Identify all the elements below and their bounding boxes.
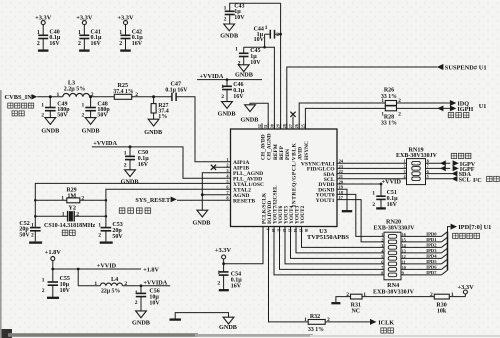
svg-text:16: 16 bbox=[304, 228, 308, 232]
ground bar (DGND) bbox=[342, 210, 352, 212]
svg-text:GNDB: GNDB bbox=[132, 319, 150, 326]
net label +VVIDA (top) bbox=[200, 73, 224, 80]
svg-text:YOUT1: YOUT1 bbox=[316, 198, 335, 204]
svg-text:1: 1 bbox=[82, 103, 85, 109]
svg-text:GNDB: GNDB bbox=[219, 324, 237, 331]
ground GNDB (tie point) bbox=[219, 317, 237, 331]
wire bbox=[42, 25, 44, 36]
svg-text:2: 2 bbox=[135, 300, 138, 306]
wire YOUT4 to RN20 bbox=[291, 227, 385, 259]
svg-text:5: 5 bbox=[427, 174, 429, 179]
capacitor C54 0.1u 16V bbox=[217, 264, 242, 290]
svg-text:33 1%: 33 1% bbox=[381, 120, 397, 126]
svg-text:2: 2 bbox=[41, 113, 44, 119]
resistor R28 33 1% bbox=[381, 106, 450, 127]
svg-text:29: 29 bbox=[277, 124, 281, 128]
svg-text:CH_AGND: CH_AGND bbox=[267, 133, 273, 160]
svg-text:1: 1 bbox=[62, 211, 65, 217]
wire bbox=[125, 25, 127, 36]
capacitor C41 0.1u 16V bbox=[78, 29, 102, 50]
capacitor C42 0.1u 16V bbox=[119, 29, 143, 50]
ground GNDB (CH_AGND) bbox=[240, 105, 258, 124]
svg-text:1: 1 bbox=[304, 317, 307, 323]
svg-text:16V: 16V bbox=[387, 202, 398, 208]
svg-text:SYS_RESET: SYS_RESET bbox=[135, 197, 171, 204]
net label +1.8V (right end) bbox=[143, 267, 159, 274]
svg-text:32: 32 bbox=[258, 124, 262, 128]
port SDA (arrow left) bbox=[451, 171, 471, 178]
power +3.3V terminal (C40 rail) bbox=[35, 14, 52, 24]
wire ground tie bbox=[175, 313, 228, 320]
capacitor C51 0.1u 16V bbox=[372, 184, 398, 208]
svg-text:IPD5: IPD5 bbox=[426, 259, 437, 264]
svg-text:22µ 5%: 22µ 5% bbox=[101, 289, 120, 295]
ground bar (C52) bbox=[29, 241, 42, 243]
ground GNDB (R27) bbox=[144, 119, 162, 136]
wire +3.3V to IO_DVDD bbox=[222, 227, 263, 266]
ground bar (C54) bbox=[219, 289, 229, 291]
svg-text:2: 2 bbox=[98, 232, 101, 238]
capacitor C44 1u 10V (series, horizontal) bbox=[254, 25, 281, 43]
label CJK: composite video signal bbox=[8, 103, 34, 116]
capacitor C43 1u 10V bbox=[224, 3, 246, 24]
pin 17 YOUT1 bbox=[316, 195, 344, 204]
pin 31 CH_AGND bbox=[264, 123, 272, 160]
svg-text:GNDB: GNDB bbox=[82, 128, 100, 135]
label CJK: horizontal sync bbox=[448, 112, 469, 117]
pin 22 SDA bbox=[323, 169, 343, 178]
svg-text:1: 1 bbox=[41, 103, 44, 109]
svg-text:SCL: SCL bbox=[459, 176, 471, 183]
capacitor C52 20p 50V bbox=[19, 221, 40, 242]
no-connect X on INTREQ/GPCL/VBLK bbox=[290, 112, 295, 129]
svg-text:+VVIDA: +VVIDA bbox=[143, 279, 167, 286]
net label +VVID bbox=[97, 263, 117, 270]
label U3 bbox=[319, 228, 327, 235]
pin 27 INTREQ/GPCL/VBLK bbox=[289, 123, 297, 207]
pin 1 AIP1A bbox=[226, 157, 249, 166]
pin 30 REFM bbox=[270, 123, 278, 160]
wire RN19 to IGPV bbox=[426, 162, 451, 164]
power +3.3V terminal (R30) bbox=[457, 284, 474, 297]
svg-text:INTREQ/GPCL/VBLK: INTREQ/GPCL/VBLK bbox=[291, 142, 297, 207]
svg-text:1: 1 bbox=[381, 232, 383, 237]
wire YOUT7/I2CSEL to RN20 bbox=[274, 227, 384, 275]
port SYS_RESET bbox=[135, 197, 230, 204]
svg-text:10V: 10V bbox=[234, 15, 245, 21]
port IGPV (bidir) bbox=[440, 160, 476, 168]
svg-text:2: 2 bbox=[224, 17, 227, 23]
capacitor C53 20p 50V bbox=[98, 222, 123, 241]
svg-text:26: 26 bbox=[295, 124, 299, 128]
pin 10 IO.DVDD bbox=[267, 201, 275, 232]
wire RN19 to IGPF bbox=[426, 167, 451, 169]
svg-text:10V: 10V bbox=[60, 288, 71, 294]
svg-text:CH_AVDD: CH_AVDD bbox=[260, 134, 266, 160]
ground bar bbox=[120, 49, 131, 51]
svg-text:2: 2 bbox=[430, 292, 433, 298]
wire +1.8V / +VVID rail bbox=[51, 261, 141, 271]
net label +VVIDA (bottom) bbox=[143, 279, 167, 286]
resistor network RN19 EXB-38V330JV bbox=[396, 147, 438, 185]
pin 25 HSYNC bbox=[301, 123, 309, 160]
svg-text:2: 2 bbox=[42, 288, 45, 294]
svg-text:EXB-38V330JV: EXB-38V330JV bbox=[373, 226, 415, 232]
ground GNDB (C46) bbox=[218, 102, 236, 118]
svg-text:IPD0: IPD0 bbox=[426, 231, 437, 236]
wire RN19 to SCL port bbox=[426, 178, 453, 180]
port CVBS_IN bbox=[5, 94, 38, 101]
ground bar (tie point) bbox=[169, 318, 181, 320]
wire VSYNC/PALI to RN19 bbox=[337, 162, 407, 164]
ground GNDB (C45) bbox=[235, 65, 253, 79]
svg-text:SUSPEND# U1: SUSPEND# U1 bbox=[445, 65, 487, 72]
no-connect X on AIP1B bbox=[211, 165, 231, 170]
ground GNDB (C48) bbox=[82, 118, 100, 135]
bus IPD[7:0] bbox=[401, 227, 451, 275]
net label +VVIDA (left) bbox=[93, 140, 117, 147]
pin 19 DGND bbox=[318, 185, 344, 194]
wire SCL to RN19 bbox=[337, 178, 407, 180]
power +3.3V terminal (C41 rail) bbox=[76, 14, 93, 24]
svg-text:GNDB: GNDB bbox=[144, 129, 162, 136]
label crystal value bbox=[44, 223, 95, 229]
ground GNDB (C56) bbox=[132, 311, 150, 327]
svg-text:Y2: Y2 bbox=[68, 204, 76, 211]
svg-text:AVID: AVID bbox=[298, 147, 304, 160]
svg-text:6: 6 bbox=[381, 259, 383, 264]
svg-text:10V: 10V bbox=[250, 60, 261, 66]
svg-text:2: 2 bbox=[381, 237, 383, 242]
svg-text:+1.8V: +1.8V bbox=[45, 249, 62, 256]
pin 7 AGND bbox=[226, 190, 249, 199]
ground bar (C55) bbox=[47, 297, 59, 299]
svg-text:REFP: REFP bbox=[279, 145, 285, 160]
pin 20 DVDD bbox=[318, 179, 343, 188]
power +1.8V terminal bbox=[45, 249, 62, 260]
svg-text:2: 2 bbox=[398, 111, 401, 117]
power +3.3V terminal (C42 rail) bbox=[117, 14, 134, 24]
port IPD[7:0] U1 (arrow right) bbox=[451, 224, 492, 232]
svg-text:2: 2 bbox=[226, 162, 228, 167]
wire L3 to R25 bbox=[89, 95, 114, 98]
svg-text:1: 1 bbox=[381, 98, 384, 104]
svg-text:GNDB: GNDB bbox=[193, 219, 211, 226]
svg-text:IPD6: IPD6 bbox=[426, 264, 437, 269]
ground GNDB (AGND) bbox=[193, 210, 211, 226]
wire PCLK/SCLK to R32 bbox=[269, 227, 309, 322]
pin 23 FID/GLCO bbox=[307, 164, 344, 173]
svg-text:16V: 16V bbox=[138, 162, 149, 168]
pin 6 XTAL2 bbox=[226, 184, 251, 193]
scan edge artifacts (decorative) bbox=[0, 90, 500, 338]
svg-text:CVBS_IN: CVBS_IN bbox=[5, 94, 33, 101]
wire +VVIDA to CH_AVDD bbox=[197, 78, 262, 81]
wire YOUT5 to RN20 bbox=[285, 227, 384, 264]
wire REFP vertical bbox=[280, 3, 282, 129]
pin 14 YOUT4 bbox=[289, 205, 297, 232]
svg-text:1: 1 bbox=[235, 46, 238, 52]
svg-text:4: 4 bbox=[381, 248, 383, 253]
ground bar (C51) bbox=[376, 207, 386, 209]
svg-text:GNDB: GNDB bbox=[218, 110, 236, 117]
wire CVBS to L3 bbox=[37, 95, 63, 98]
svg-text:27: 27 bbox=[289, 124, 293, 128]
label CJK: system reset bbox=[119, 208, 150, 213]
svg-text:HSYNC: HSYNC bbox=[304, 141, 310, 160]
wire XTAL1 bbox=[35, 183, 230, 227]
svg-text:1: 1 bbox=[42, 277, 45, 283]
svg-text:2: 2 bbox=[37, 41, 40, 47]
pin 18 YOUT0 bbox=[316, 190, 344, 199]
svg-text:NC: NC bbox=[351, 308, 360, 314]
svg-text:CS10-14.31818MHz: CS10-14.31818MHz bbox=[44, 223, 95, 229]
svg-text:GNDB: GNDB bbox=[240, 117, 258, 124]
svg-text:2: 2 bbox=[217, 280, 220, 286]
svg-text:GNDB: GNDB bbox=[41, 128, 59, 135]
ground bar bbox=[38, 49, 49, 51]
resistor R27 37.4 1% (to ground) bbox=[151, 97, 169, 120]
svg-text:1: 1 bbox=[57, 92, 60, 98]
svg-text:3: 3 bbox=[381, 243, 383, 248]
pin 12 YOUT6 bbox=[278, 205, 286, 232]
svg-text:REFM: REFM bbox=[273, 144, 279, 160]
svg-text:2: 2 bbox=[31, 232, 34, 238]
svg-text:1: 1 bbox=[124, 150, 127, 156]
svg-text:50V: 50V bbox=[112, 234, 123, 240]
pin 9 PCLK/SCLK bbox=[261, 192, 269, 232]
svg-text:+VVID: +VVID bbox=[97, 263, 117, 270]
svg-text:IPD4: IPD4 bbox=[426, 253, 437, 258]
svg-text:GNDB: GNDB bbox=[121, 178, 139, 185]
svg-text:R25: R25 bbox=[117, 82, 128, 89]
pin 26 AVID bbox=[295, 123, 303, 160]
wire AVID to R26 bbox=[299, 103, 385, 129]
svg-text:IPD7: IPD7 bbox=[426, 270, 437, 275]
svg-text:2: 2 bbox=[78, 41, 81, 47]
pin 32 CH_AVDD bbox=[258, 123, 266, 160]
pin 13 YOUT5 bbox=[283, 205, 291, 232]
svg-text:30: 30 bbox=[270, 124, 274, 128]
capacitor C50 0.1u 16V bbox=[124, 147, 149, 170]
svg-text:+VVID: +VVID bbox=[382, 179, 402, 186]
capacitor C55 10u 10V bbox=[42, 269, 71, 297]
wire C47 to AIP1A bbox=[176, 97, 230, 162]
svg-text:2: 2 bbox=[221, 94, 224, 100]
ground GNDB (C43) bbox=[220, 24, 238, 40]
capacitor C46 0.1u 16V bbox=[221, 80, 244, 102]
wire SDA to RN19 bbox=[337, 173, 407, 175]
svg-text:RN20: RN20 bbox=[386, 219, 401, 226]
wire C43 top rail to REFP bbox=[230, 3, 281, 11]
IC U3 TVP5150APBS body bbox=[231, 129, 338, 227]
svg-text:ICLK: ICLK bbox=[378, 319, 394, 326]
svg-text:1: 1 bbox=[226, 157, 228, 162]
wire HSYNC to R28 bbox=[305, 108, 385, 129]
resistor R32 33 1% bbox=[304, 314, 370, 333]
port SCL (arrow left) bbox=[451, 176, 470, 183]
svg-text:2: 2 bbox=[346, 292, 349, 298]
svg-text:L3: L3 bbox=[68, 80, 75, 87]
svg-text:28: 28 bbox=[283, 124, 287, 128]
capacitor C49 180p 50V bbox=[41, 97, 70, 119]
wire YOUT1 to RN20 pin2 bbox=[337, 200, 384, 242]
wire PLL_AGND / AGND to ground bbox=[201, 173, 231, 210]
svg-text:1: 1 bbox=[94, 281, 97, 287]
svg-text:U1: U1 bbox=[479, 103, 487, 110]
label CJK: vertical sync bbox=[451, 153, 471, 158]
svg-text:10V: 10V bbox=[149, 301, 160, 307]
wire CH_AGND to ground bbox=[250, 103, 268, 129]
pin 24 VSYNC/PALI bbox=[301, 159, 344, 168]
wire +VVIDA to PLL_AVDD bbox=[92, 145, 231, 178]
ground bar (R31) bbox=[331, 302, 340, 304]
wire DGND to ground bbox=[337, 189, 347, 210]
wire XTAL2 bbox=[106, 189, 231, 227]
svg-text:2: 2 bbox=[372, 202, 375, 208]
svg-text:RESETB: RESETB bbox=[233, 199, 255, 205]
capacitor C56 10u 10V bbox=[135, 286, 161, 311]
net label +VVID (right) bbox=[382, 179, 402, 186]
port ICLK (arrow right) bbox=[370, 319, 394, 327]
resistor R25 37.4 1% bbox=[113, 82, 155, 100]
pin 11 YOUT7/I2CSEL bbox=[272, 185, 280, 232]
svg-text:5: 5 bbox=[381, 254, 383, 259]
wire R31 to R30 bbox=[362, 296, 434, 298]
svg-text:50V: 50V bbox=[97, 113, 108, 119]
wire FID/GLCO to RN19 bbox=[337, 167, 407, 169]
crystal Y2 CS10-14.31818MHz bbox=[34, 204, 107, 221]
ground bar (C53) bbox=[100, 241, 113, 243]
wire bbox=[83, 25, 85, 36]
pin 5 XTAL1/OSC bbox=[226, 179, 264, 188]
svg-text:+3.3V: +3.3V bbox=[215, 247, 232, 254]
svg-text:1: 1 bbox=[265, 25, 268, 31]
resistor R29 1M bbox=[34, 188, 107, 203]
label RN4 bbox=[373, 282, 415, 295]
port SUSPEND# U1 (arrow left) bbox=[437, 64, 487, 72]
label CJK: clock bbox=[381, 328, 394, 333]
port IGPF (bidir) bbox=[440, 166, 475, 174]
svg-text:GNDB: GNDB bbox=[220, 33, 238, 40]
resistor network RN20/RN4 EXB-38V330JV bbox=[373, 219, 415, 280]
port IGPH (bidir arrows) bbox=[437, 105, 473, 113]
svg-text:2: 2 bbox=[124, 162, 127, 168]
power +3.3V terminal (IO) bbox=[215, 247, 232, 259]
port IDQ (arrow right) bbox=[450, 100, 469, 107]
wire YOUT0 to RN20 pin1 bbox=[337, 194, 384, 236]
pin 29 REFP bbox=[277, 123, 285, 160]
pin 15 YOUT3 bbox=[294, 205, 302, 232]
svg-text:L4: L4 bbox=[111, 276, 118, 283]
label I2C control bbox=[473, 176, 499, 184]
label TVP5150APBS bbox=[307, 234, 349, 241]
svg-text:1: 1 bbox=[372, 191, 375, 197]
svg-text:33 1%: 33 1% bbox=[308, 327, 324, 333]
svg-text:16V: 16V bbox=[132, 41, 143, 47]
svg-text:2: 2 bbox=[119, 41, 122, 47]
wire RN19 to SDA port bbox=[426, 173, 453, 175]
pin 4 PLL_AVDD bbox=[226, 173, 262, 182]
pin 3 PLL_AGND bbox=[226, 168, 263, 177]
ground GNDB (C50) bbox=[121, 170, 139, 186]
label CJK: crystal bbox=[62, 230, 75, 235]
svg-text:IPD[7:0] U1: IPD[7:0] U1 bbox=[458, 224, 491, 231]
label CJK: image data bbox=[453, 233, 480, 238]
pin 8 RESETB bbox=[226, 195, 255, 204]
wire REFM line bbox=[244, 47, 275, 129]
svg-text:+VVIDA: +VVIDA bbox=[93, 140, 117, 147]
svg-text:R26: R26 bbox=[384, 88, 394, 94]
svg-text:7: 7 bbox=[381, 265, 383, 270]
svg-text:16V: 16V bbox=[233, 94, 244, 100]
svg-text:8: 8 bbox=[381, 270, 383, 275]
svg-text:1: 1 bbox=[61, 195, 64, 201]
svg-text:10k: 10k bbox=[437, 309, 447, 315]
capacitor C48 180p 50V bbox=[82, 97, 111, 119]
svg-text:C47: C47 bbox=[170, 80, 181, 87]
wire YOUT3 to RN20 bbox=[296, 227, 384, 253]
svg-text:2: 2 bbox=[82, 113, 85, 119]
wire DVDD to +VVID bbox=[337, 183, 382, 186]
svg-text:IPD1: IPD1 bbox=[426, 237, 437, 242]
svg-text:GNDB: GNDB bbox=[235, 71, 253, 78]
pin 16 YOUT2 bbox=[300, 205, 308, 232]
svg-text:16V: 16V bbox=[91, 41, 102, 47]
inductor L4 22u 5% bbox=[78, 269, 170, 295]
capacitor C47 0.1u 16V (series) bbox=[154, 80, 189, 101]
svg-text:YOUT2: YOUT2 bbox=[300, 205, 306, 224]
svg-text:+1.8V: +1.8V bbox=[143, 267, 159, 274]
svg-text:10V: 10V bbox=[254, 37, 265, 43]
resistor R31 NC bbox=[336, 292, 366, 315]
wire YOUT2 to RN20 bbox=[302, 227, 385, 248]
resistor R30 10k bbox=[430, 292, 465, 315]
ground bar bbox=[79, 49, 90, 51]
pin 21 SCL bbox=[324, 174, 343, 183]
svg-text:TVP5150APBS: TVP5150APBS bbox=[307, 234, 349, 241]
svg-text:RN4: RN4 bbox=[387, 282, 399, 289]
resistor R26 33 1% bbox=[381, 88, 450, 106]
svg-text:I²C: I²C bbox=[473, 177, 482, 184]
pin 28 PDN bbox=[283, 123, 291, 160]
svg-text:25: 25 bbox=[301, 124, 305, 128]
svg-text:16V: 16V bbox=[49, 41, 60, 47]
svg-text:PDN: PDN bbox=[285, 149, 291, 160]
svg-text:31: 31 bbox=[264, 124, 268, 128]
svg-text:IPD3: IPD3 bbox=[426, 248, 437, 253]
label U1 bbox=[479, 103, 487, 110]
svg-text:2: 2 bbox=[276, 32, 279, 38]
inductor L3 2.2u 5% bbox=[57, 80, 94, 98]
ground GNDB (C49) bbox=[41, 118, 59, 135]
svg-text:IPD2: IPD2 bbox=[426, 242, 437, 247]
capacitor C45 1u 10V bbox=[235, 46, 261, 66]
svg-text:EXB-38V330JV: EXB-38V330JV bbox=[373, 289, 415, 295]
wire PDN to SUSPEND# bbox=[287, 67, 437, 129]
capacitor C40 0.1u 16V bbox=[37, 29, 61, 50]
svg-text:50V: 50V bbox=[19, 233, 30, 239]
svg-text:16V: 16V bbox=[231, 283, 242, 289]
wire YOUT6 to RN20 bbox=[280, 227, 385, 270]
svg-text:50V: 50V bbox=[57, 113, 68, 119]
pin 2 AIP1B bbox=[226, 162, 249, 171]
svg-text:+3.3V: +3.3V bbox=[457, 284, 474, 291]
svg-text:2.2µ 5%: 2.2µ 5% bbox=[64, 87, 85, 93]
wire C44 left leg down to REFM line bbox=[263, 33, 282, 49]
